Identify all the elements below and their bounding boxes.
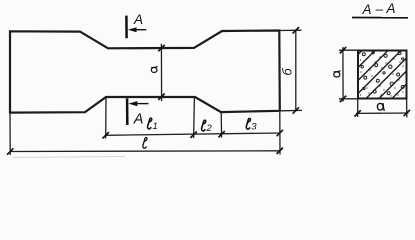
section extension down right xyxy=(406,100,408,118)
extension line top-right for b xyxy=(280,29,301,31)
label a section-bottom xyxy=(377,103,384,111)
dimension row l (overall) xyxy=(10,150,280,153)
tick a top xyxy=(158,45,164,51)
section marker A bottom : arrow xyxy=(136,103,148,105)
section marker A top : bar xyxy=(125,16,128,39)
label l (overall) xyxy=(143,138,147,149)
label l2 xyxy=(202,120,213,134)
svg-text:A: A xyxy=(362,2,372,17)
dimension row l1 l2 l3 xyxy=(106,133,280,135)
tick l right xyxy=(277,148,283,154)
svg-text:б: б xyxy=(281,68,295,76)
faint scan ghost line bottom xyxy=(13,157,125,158)
tick b top xyxy=(293,27,299,33)
svg-text:A: A xyxy=(386,1,396,16)
tick l3 right xyxy=(277,130,283,136)
tick a-bottom right xyxy=(404,110,410,116)
tick b bottom xyxy=(293,107,299,113)
section dimension line a bottom xyxy=(356,112,409,114)
extension line l1 left xyxy=(105,98,107,139)
tick a-left top xyxy=(340,47,346,53)
label l3 xyxy=(246,118,257,132)
section marker A top : arrow xyxy=(136,29,147,31)
extension line right end xyxy=(279,112,281,155)
section square xyxy=(358,51,407,99)
section extension down left xyxy=(357,100,359,118)
extension line left end (l) xyxy=(9,114,11,155)
dimension line b xyxy=(295,30,297,112)
dimension line a (neck height) xyxy=(160,44,162,101)
section extension left bottom xyxy=(339,98,357,100)
tick l1/l2 xyxy=(190,132,196,138)
svg-text:A: A xyxy=(133,12,143,27)
tick l1 left xyxy=(103,132,109,138)
tick a bottom xyxy=(158,94,164,100)
label a (neck) xyxy=(151,67,158,73)
section extension left top xyxy=(339,49,357,51)
svg-text:A: A xyxy=(133,112,144,128)
svg-text:3: 3 xyxy=(251,121,257,132)
title underline xyxy=(352,17,408,19)
section dimension line a left xyxy=(342,47,344,102)
tick l2/l3 xyxy=(218,131,224,137)
svg-text:2: 2 xyxy=(206,123,213,134)
tick l left xyxy=(7,148,13,154)
aggregate circles xyxy=(361,52,404,95)
extension line bottom-right for b xyxy=(281,109,302,111)
aggregate dots xyxy=(360,56,404,96)
svg-text:1: 1 xyxy=(153,121,158,132)
section marker A bottom : bar xyxy=(126,98,129,125)
hatching xyxy=(358,51,407,99)
extension line l2/l3 xyxy=(220,113,222,138)
extension line l1/l2 xyxy=(193,98,196,138)
specimen outline (dog-bone briquette) xyxy=(10,31,280,113)
svg-text:–: – xyxy=(375,2,384,17)
label a section-left xyxy=(334,71,341,77)
tick a-left bottom xyxy=(340,96,346,102)
label l1 xyxy=(148,118,158,132)
tick a-bottom left xyxy=(354,110,360,116)
